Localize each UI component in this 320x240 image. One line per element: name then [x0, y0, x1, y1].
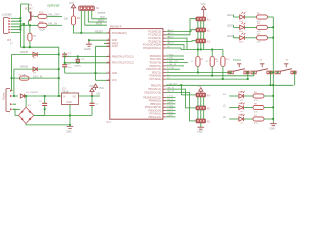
led LED1 — [240, 12, 246, 19]
wire int1 stub — [166, 65, 184, 67]
wire pin stubs — [11, 18, 24, 32]
wire C3 top stub — [64, 52, 66, 54]
wire R15 stem — [29, 25, 31, 33]
ground symbol k bottom — [198, 127, 205, 129]
junction dot bus4 — [272, 95, 274, 97]
svg-text:PROG: PROG — [233, 58, 241, 62]
svg-text:GND: GND — [66, 130, 72, 133]
wire gnd rail power — [34, 114, 92, 116]
wire C1 stubs — [44, 96, 46, 115]
ic IC1 left pin names — [112, 32, 134, 82]
wire X1 stubs — [12, 91, 20, 110]
svg-text:PB6(XTAL1/TOSC1): PB6(XTAL1/TOSC1) — [112, 55, 134, 58]
ground symbol bus — [270, 123, 277, 126]
wire pb2 to K6 — [166, 92, 196, 121]
wire vcc pin — [96, 79, 110, 81]
svg-text:4: 4 — [108, 79, 109, 81]
capacitor C1 — [42, 103, 47, 105]
wire adc0 to K2 — [166, 30, 196, 32]
wire isp pin3 — [88, 11, 107, 23]
junction dot agnd — [88, 39, 90, 41]
wire s2 left up — [253, 74, 255, 76]
wire led3 to r — [244, 37, 256, 39]
wire line D fuse — [12, 77, 59, 79]
capacitor C3 — [62, 54, 67, 56]
svg-text:MISO: MISO — [98, 19, 104, 22]
svg-text:16MHz: 16MHz — [74, 65, 81, 67]
wire adc4 down — [166, 45, 184, 50]
wire avcc vertical — [96, 46, 110, 80]
svg-text:LED3: LED3 — [227, 36, 233, 38]
resistor RN1 — [196, 57, 200, 67]
resistor R14 — [38, 23, 47, 27]
wire rn2 rn3 tops — [212, 50, 223, 57]
wire led1 to r — [244, 16, 256, 18]
wire led6 to r — [244, 118, 253, 120]
bridge B1 diodes — [18, 107, 33, 123]
svg-text:AGND: AGND — [84, 48, 91, 51]
wire vertical bus left — [20, 4, 22, 47]
svg-text:MOSI: MOSI — [96, 23, 102, 26]
svg-text:PD7(AIN1): PD7(AIN1) — [149, 78, 161, 81]
wire isp pin4 — [92, 11, 107, 19]
wire xtal2 — [65, 62, 110, 64]
svg-text:LED6: LED6 — [238, 115, 244, 117]
junction dots connector — [19, 17, 25, 30]
svg-text:T_IN: T_IN — [169, 68, 174, 70]
svg-text:Power: Power — [2, 92, 6, 100]
fuse F1 — [19, 76, 29, 80]
diode D2 — [33, 52, 37, 56]
svg-text:ADC2: ADC2 — [168, 35, 174, 38]
led LED2 — [240, 22, 246, 29]
resistor R13 — [38, 14, 47, 18]
junction dot line A — [23, 46, 25, 48]
wire VO out — [79, 95, 101, 97]
wire left vertical C — [13, 69, 15, 96]
labels rail nets — [169, 83, 178, 86]
connector SV2 pins — [8, 17, 10, 33]
wire R15 bottom — [29, 41, 31, 47]
svg-text:1N4148: 1N4148 — [20, 66, 29, 69]
labels adc nets — [168, 29, 174, 45]
wire txd stub — [166, 58, 184, 60]
ic IC1 right pin stubs — [163, 32, 166, 117]
labels RN — [191, 61, 219, 63]
capacitor C2 — [90, 103, 95, 105]
wire adc1 to K1 — [166, 19, 196, 35]
ic IC1 left pin numbers — [107, 32, 109, 81]
wire collector top — [21, 4, 29, 11]
wire rn bottoms — [198, 67, 223, 80]
junction dots k rail — [197, 49, 213, 51]
svg-text:BC847: BC847 — [25, 8, 33, 11]
svg-text:SAL_IN: SAL_IN — [169, 63, 177, 66]
wire adc2 down — [166, 38, 187, 49]
junction dot bridge right — [44, 108, 46, 110]
junction dots caps — [64, 55, 66, 63]
ground symbol agnd — [86, 41, 92, 46]
junction dot bus2 — [272, 26, 274, 28]
wire isp pin2 — [85, 11, 107, 26]
wire s1 right drop — [247, 74, 249, 79]
ic IC1 outline — [110, 29, 163, 120]
connector K1 — [196, 17, 210, 21]
labels pb nets — [168, 87, 174, 92]
ground symbol power — [67, 126, 74, 128]
labels RN refs — [201, 59, 231, 61]
resistor R2 — [257, 15, 268, 19]
junction dot bridge top — [25, 95, 27, 97]
wire t0 stub — [166, 68, 180, 70]
wire regulator gnd — [69, 105, 71, 127]
connector K3 — [196, 39, 210, 43]
wire R1 bottom to reset — [74, 25, 110, 33]
wire line B — [12, 53, 59, 55]
svg-text:1: 1 — [108, 32, 109, 34]
wire r3 to bus — [268, 26, 274, 28]
wire r5 to bus — [264, 95, 273, 97]
resistor R6 — [253, 105, 264, 109]
wire pb0 to K4 — [166, 85, 196, 95]
wire s2 right drop — [270, 74, 272, 85]
wire rxd stub — [166, 55, 184, 57]
junction dot gnd rail — [95, 72, 97, 74]
svg-text:RESET: RESET — [95, 30, 104, 33]
wire base to R13 — [35, 15, 38, 17]
wire k rail 49.5 — [181, 49, 223, 51]
wire line C — [14, 68, 59, 70]
wire rail sw1 — [166, 72, 231, 74]
svg-text:LED5: LED5 — [238, 103, 244, 105]
wire led4 left — [229, 95, 239, 97]
led LED6 — [239, 114, 245, 121]
wire adc3 to K3 — [166, 40, 196, 43]
connector SV2 bracket — [4, 18, 9, 34]
wire SAL_IN — [47, 24, 62, 26]
crystal Q1 — [76, 59, 81, 62]
svg-text:RXD: RXD — [169, 54, 174, 56]
svg-text:ADC0: ADC0 — [168, 29, 174, 32]
wire bridge left — [13, 109, 19, 115]
diode D1 — [20, 94, 24, 98]
svg-text:T_A: T_A — [169, 95, 173, 98]
svg-text:GND: GND — [197, 131, 203, 134]
svg-text:MEGA8-P: MEGA8-P — [110, 24, 122, 28]
wire line A — [21, 46, 59, 48]
connector X1 bracket — [6, 89, 10, 112]
wire led5 to r — [244, 107, 253, 109]
svg-text:TXD: TXD — [169, 58, 174, 60]
supply VCC arrow ic — [93, 84, 97, 90]
svg-text:IC1: IC1 — [107, 120, 112, 124]
svg-text:+5V: +5V — [96, 93, 101, 96]
wire bridge top stub — [25, 96, 27, 107]
junction dot k4 feed — [180, 84, 182, 86]
wire C2 stubs — [91, 96, 93, 115]
svg-text:ADC3: ADC3 — [168, 42, 174, 45]
svg-text:LCD/M5: LCD/M5 — [2, 13, 12, 17]
connector K6 — [196, 119, 210, 123]
svg-text:VCC: VCC — [197, 85, 202, 88]
svg-text:T_B: T_B — [169, 99, 173, 101]
wire k columns top — [198, 21, 204, 57]
junction dot R15 top — [29, 24, 31, 26]
svg-text:7: 7 — [108, 72, 109, 74]
wire emitter — [28, 21, 30, 26]
switch S3 — [275, 64, 296, 74]
wire led2 to r — [244, 26, 256, 28]
resistor RN3 — [221, 57, 225, 67]
svg-text:PC5(ADC5/SCL): PC5(ADC5/SCL) — [143, 47, 161, 50]
junction dot reg gnd — [69, 114, 71, 116]
svg-text:VCC: VCC — [201, 3, 206, 6]
svg-text:PB2(SS/OC1B): PB2(SS/OC1B) — [145, 91, 162, 94]
junction dot C1 top — [44, 95, 46, 97]
junction dot R15 — [29, 46, 31, 48]
connector K4 — [196, 93, 210, 97]
svg-text:20: 20 — [107, 42, 109, 44]
wire led1 left — [234, 15, 240, 18]
junction dots bus rails — [272, 71, 274, 73]
connector SV1 bracket — [79, 6, 95, 11]
junction dot fuse left — [11, 77, 13, 79]
junction dots right bus — [58, 53, 60, 97]
labels pd bottom — [169, 95, 174, 118]
svg-text:PB7(XTAL2/TOSC2): PB7(XTAL2/TOSC2) — [112, 62, 134, 65]
svg-text:LC_IN: LC_IN — [168, 91, 174, 93]
svg-text:SAL_IN: SAL_IN — [48, 22, 57, 26]
supply VCC arrow k top — [202, 6, 206, 17]
led LED5 — [239, 102, 245, 109]
junction dots rn bottoms — [197, 72, 224, 80]
junction dots crystal — [77, 55, 79, 63]
svg-text:VI: VI — [63, 96, 66, 99]
wire bridge bottom — [26, 124, 70, 125]
junction dots s1 — [230, 71, 249, 80]
svg-text:PC6(/RESET): PC6(/RESET) — [112, 32, 127, 35]
supply VCC arrow k bottom — [199, 88, 203, 93]
junction dot reset — [80, 32, 82, 34]
svg-text:Update: Update — [97, 11, 106, 15]
svg-text:VO: VO — [73, 96, 77, 99]
junction dots s3 — [272, 71, 295, 86]
svg-text:10: 10 — [107, 61, 109, 63]
wire vertical second — [23, 24, 25, 47]
wire led2 left — [234, 25, 240, 28]
connector K5 — [196, 106, 210, 110]
svg-text:DCC_IN: DCC_IN — [33, 76, 43, 79]
svg-text:SCK: SCK — [100, 16, 105, 19]
svg-text:LED4: LED4 — [238, 92, 244, 94]
regulator IC2 — [62, 93, 79, 105]
wire s3 right drop — [294, 74, 296, 85]
svg-text:21: 21 — [107, 45, 109, 47]
wire led5 left — [229, 107, 239, 109]
wire led3 left — [234, 35, 240, 38]
junction dots s2 — [253, 71, 272, 86]
resistor R4 — [257, 36, 268, 40]
wire pb1 to K5 — [166, 89, 196, 108]
junction dot C bottom — [13, 95, 15, 97]
supply VCC arrow power — [90, 88, 94, 96]
svg-text:SAL_OUT: SAL_OUT — [48, 13, 60, 17]
wire pd stubs bottom — [166, 97, 175, 117]
wire right bus vertical — [272, 17, 274, 123]
svg-text:TSOP: TSOP — [39, 29, 46, 32]
wire k bottom columns — [198, 97, 204, 127]
capacitor C4 — [62, 65, 67, 67]
switch S1 — [228, 64, 249, 74]
junction dot VCC — [91, 95, 93, 97]
svg-text:1N4004: 1N4004 — [30, 92, 38, 94]
svg-text:SAL_OUT: SAL_OUT — [169, 60, 179, 63]
svg-text:8: 8 — [108, 39, 109, 41]
switch S2 — [251, 64, 272, 74]
junction dot bus5 — [272, 106, 274, 108]
wire isp pin1 — [80, 11, 82, 34]
transistor T1 — [29, 11, 35, 20]
svg-text:LB_IN: LB_IN — [168, 87, 174, 89]
wire left vertical B — [11, 54, 13, 90]
resistor RN2 — [210, 57, 214, 67]
labels mid nets — [169, 54, 179, 69]
resistor R7 — [253, 117, 264, 121]
ic IC1 left pin stubs — [106, 33, 110, 80]
wire led6 left — [229, 118, 239, 120]
wire r7 to bus — [264, 118, 273, 120]
wire vertical right bus — [58, 47, 60, 96]
wire rail sw2 — [166, 75, 254, 77]
wire rail sw3 — [166, 78, 248, 80]
resistor R3 — [257, 25, 268, 29]
junction dot bus3 — [272, 37, 274, 39]
wire bridge right — [34, 114, 45, 116]
connector X1 pins — [10, 90, 12, 111]
svg-text:VCC: VCC — [69, 2, 74, 5]
resistor R15 vertical — [28, 33, 32, 41]
led LED4 — [239, 91, 245, 98]
wire rail lcd — [166, 84, 293, 86]
svg-text:LED2: LED2 — [227, 26, 233, 28]
svg-text:1N4148: 1N4148 — [20, 51, 29, 54]
svg-text:LED1: LED1 — [227, 15, 233, 17]
wire adc5 down — [166, 48, 181, 50]
wire xtal1 — [65, 55, 110, 57]
ic IC1 right pin numbers — [167, 30, 169, 117]
led LED3 — [240, 33, 246, 40]
wire aref stub — [104, 42, 110, 44]
wire R14 row — [21, 24, 38, 26]
svg-text:ADC1: ADC1 — [168, 32, 174, 35]
svg-text:VCC: VCC — [99, 87, 104, 90]
wire r2 to bus — [268, 16, 274, 18]
wire r4 to bus — [268, 37, 274, 39]
wire gnd pin stub — [89, 39, 110, 41]
wire VI feed — [25, 95, 62, 97]
junction dot bus6 — [272, 118, 274, 120]
supply VCC arrow reset — [71, 4, 75, 16]
wire led4 to r — [244, 95, 253, 97]
svg-text:9: 9 — [108, 55, 109, 57]
resistor R5 — [253, 94, 264, 98]
svg-text:VCC: VCC — [112, 79, 117, 82]
wire SAL_OUT — [47, 15, 62, 17]
connector SV1 pads — [80, 7, 93, 10]
svg-text:GND: GND — [67, 102, 72, 104]
resistor R1 pullup — [71, 16, 75, 25]
connector K2 — [196, 28, 210, 32]
svg-text:GND: GND — [112, 72, 118, 75]
wire cap junction vertical — [64, 56, 66, 73]
wire gnd rail mid — [65, 72, 110, 74]
wire r6 to bus — [264, 107, 273, 109]
ic IC1 right pin names — [143, 30, 161, 118]
wire crystal stubs — [77, 56, 79, 62]
svg-text:optional: optional — [47, 4, 59, 8]
svg-text:GND: GND — [270, 128, 276, 131]
wire int0 stub — [166, 62, 188, 64]
svg-text:AVCC: AVCC — [112, 45, 119, 48]
diode D3 — [33, 67, 37, 71]
svg-text:PB0(CLKO): PB0(CLKO) — [148, 116, 161, 119]
